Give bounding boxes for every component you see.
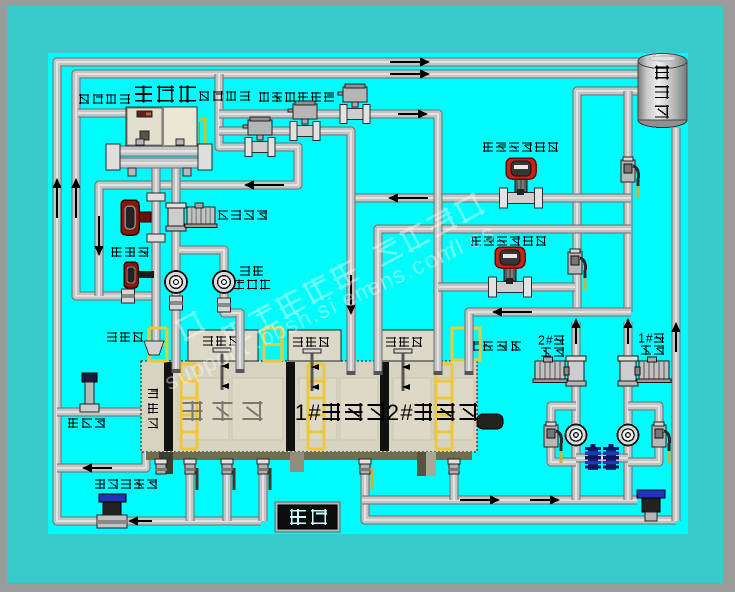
flow arrow left y312 [492,307,532,316]
filter/pump circle F2 [213,271,235,293]
wire filter column x224 + jog into tank [179,250,240,361]
conductivity meter M1 (电导率检测仪) [500,158,543,208]
drain valve D3 [257,459,270,490]
label 电导率检测仪 M1 [483,142,558,152]
flow arrow left y185 [244,180,284,189]
label 补碱泵 [68,418,105,428]
label 废液槽 [655,66,669,119]
drain valve D2 [221,459,234,490]
pump motor 2#洗铝泵 motor [533,357,567,383]
label 1#洗铝泵 [638,332,664,356]
flow arrow right on top header [390,57,430,66]
tank divider 3 [380,362,389,451]
wire 1# pump bypass loop [628,406,659,462]
drain valve D0 [155,459,167,474]
watermark line 2 (forum url) [160,219,497,395]
pump motor P1 [185,203,217,228]
label 电导率检测仪 M2 [471,236,546,246]
flow meter [124,262,154,288]
wire heater base pipe 1 [113,146,212,157]
wire pump column x176 [172,168,181,361]
label 流量计 [111,247,148,257]
svg-text:2: 2 [538,334,545,348]
tank legs [159,452,436,476]
inner cyan panel [48,53,688,534]
svg-text:2: 2 [387,400,399,425]
flow arrow up 2# pump [571,318,580,344]
ladder in 脱铝槽 [181,364,197,449]
wire cross pipe y198 [351,194,631,203]
label 纯水入口 1 [79,94,130,104]
svg-text:#: # [646,332,653,346]
flow arrow up 1# pump [623,318,632,344]
label 1#清洗槽 [295,400,385,425]
pump 1#洗铝泵 [618,356,671,386]
label 2#清洗槽 [387,400,477,425]
svg-text:1: 1 [295,400,307,425]
wire overflow drain y468 [57,452,146,468]
flow arrow down x351 [346,275,355,315]
label 2#洗铝泵 [538,334,564,358]
wire tank inlet tip x240 [236,316,245,372]
level sensor LS2 [303,349,321,391]
wire valve run y131 + drop into tank x351 [219,131,351,361]
solenoid valve S1 [243,117,275,157]
tank divider 2 [286,362,295,451]
valve V-628 [621,157,638,198]
pump 2#洗铝泵 [533,356,586,386]
tank T3 waste tank (废液槽) [638,54,687,128]
conductivity meter M2 (电导率检测仪) [489,247,532,297]
wire drain stub x190 [186,452,195,521]
wire heater inlet [78,109,126,118]
ladder above tank left [149,328,167,361]
solenoid valve S3 [338,84,370,124]
wire heater base pipe 2 [113,158,212,169]
label 液位仪 1 [203,336,239,346]
heater base flanges [106,139,212,176]
wire 2# pump bypass loop [551,406,576,462]
label 桶式过滤器 [234,266,270,290]
label 不锈钢电磁阀 [259,92,334,102]
flow arrow left y198 [388,193,428,202]
union on y296 [122,289,135,303]
wire waste riser x676 [672,128,681,521]
pump 补碱泵 [80,373,99,412]
flow arrow up left riser 2 [71,178,80,218]
inlet funnel [144,341,164,355]
flow arrow down x99 [94,216,103,256]
wire cross pipe y312 + drop into tank x469 [469,312,631,361]
union below F2 [218,298,231,312]
ladder in 2#清洗槽 [436,364,452,449]
wire inlet drop x219 + valve run y147 + return y185 [99,74,298,296]
drain valve D5 [448,459,460,474]
svg-text:#: # [308,400,321,425]
wire waste-tank feed + riser x575 [577,91,640,312]
drain valve D4 [359,459,372,490]
wire alkali pump line y412 [57,408,143,417]
red regulating valve [121,193,165,242]
level sensor LS3 [394,349,412,391]
ladder in 1#清洗槽 [308,364,324,449]
flow arrow left y468 [82,463,112,472]
nozzle frame (三个喷嘴) [452,328,480,360]
flow arrow up left riser [52,178,61,218]
wire drain x365 + bottom-right header y520 [365,452,676,520]
label 液位仪 3 [386,337,422,347]
level gauge hood 3 [377,330,435,361]
tank right nozzle [477,414,503,429]
solenoid valve S2 [288,101,320,141]
valve loop valve 1# [652,422,669,463]
svg-text:1: 1 [638,332,645,346]
wire top header + left riser + bottom-left header [57,62,640,521]
wire cross connector y458 [576,454,628,463]
pump P1 (碱液槽泵) [166,203,186,231]
label 气动隔膜泵 [95,479,157,489]
wire tank inlet tip x378 [374,316,383,374]
label 液位仪 2 [293,337,329,347]
filter/pump circle G1 [566,425,587,446]
wire 2# pump column [572,322,581,500]
button 返回 [275,502,340,532]
label 加热器 [135,86,196,103]
label 液位仪 0 [107,332,143,342]
svg-text:#: # [546,334,553,348]
valve V-575 [568,249,585,290]
blue valve B [603,444,619,470]
wire drop to overflow x156 [152,168,161,341]
wire drain stub x454 [450,452,459,500]
svg-text:#: # [400,400,413,425]
label 纯水入口 2 [199,91,250,101]
flow arrow right on valve run y114 [398,109,428,118]
wire tank inlet tip x176 [172,352,181,372]
tank T1 main tank body [141,361,477,452]
tank under-shadow [146,452,472,460]
wire 1# pump column [624,322,633,500]
wire second header + left riser 2 + mid-left run [76,74,640,296]
wire tank inlet tip x438 [434,316,443,374]
label 脱铝槽 [183,401,263,421]
level gauge hood 2 [288,330,341,361]
wire meter-2 run y287 [438,283,575,292]
label 溢流槽 [148,388,158,428]
level sensor LS1 [213,348,231,390]
flow arrow right y500 a [460,495,500,504]
wire drain stub x263 [259,452,268,521]
flow arrow right y500 b [530,495,560,504]
label 三个喷嘴 [469,341,521,351]
wire valve run y114 + drop into tank x440 [219,114,438,361]
filter/pump circle G2 [618,425,639,446]
wire cross pipe y229 + drop into tank x378 [378,229,631,361]
wire stub x161 [157,452,166,470]
level gauge hood 1 [188,330,258,361]
drain valve D1 [184,459,197,490]
wire tank inlet tip x351 [347,316,356,374]
valve loop valve 2# [544,422,561,463]
watermark line 1 (西门子工业_技术论坛) [174,192,485,349]
filter/pump circle F1 [165,271,187,293]
corner valve (blue cap) [637,490,665,521]
flow arrow up waste riser [671,322,680,352]
wire collector y500 [362,496,637,505]
flow arrow right on second header [390,69,430,78]
wire drain stub x227 [223,452,232,521]
tank divider 1 [164,362,173,451]
blue valve A [585,444,601,470]
heater (加热器) unit [126,107,205,163]
label 碱液槽泵 [218,210,267,220]
union below F1 [170,296,183,310]
pump motor 1#洗铝泵 motor [637,357,671,383]
pump 气动隔膜泵 [97,494,127,528]
flow arrow left y521 [128,516,152,525]
ladder above tank mid [264,328,282,361]
wire tank inlet tip x469 [465,314,474,374]
wire riser x628 [624,91,633,312]
